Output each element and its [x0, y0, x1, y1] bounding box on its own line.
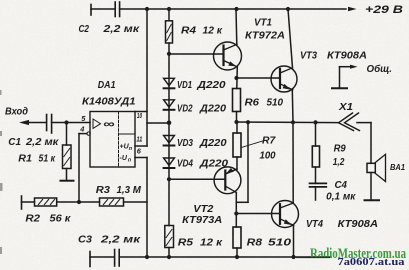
- svg-text:7a0607.at.ua: 7a0607.at.ua: [338, 256, 406, 268]
